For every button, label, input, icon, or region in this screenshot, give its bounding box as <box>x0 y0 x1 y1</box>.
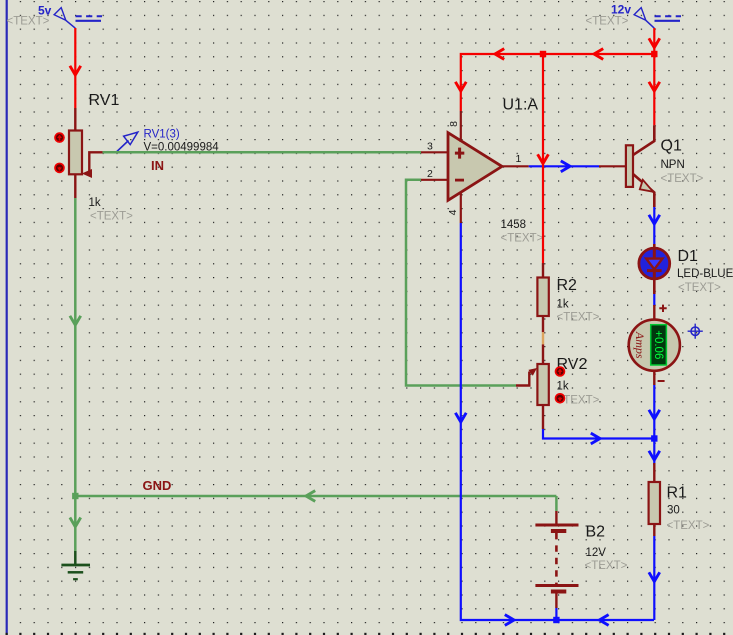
resistor R1 <box>649 439 660 537</box>
power terminal 12v <box>586 3 682 29</box>
RV2 decrement button <box>555 393 566 404</box>
net label GND <box>143 478 172 493</box>
svg-text:1k: 1k <box>557 299 569 311</box>
wire ground drop (green) <box>70 496 81 551</box>
R2 reference label <box>557 277 578 294</box>
wire battery to bottom rail (blue) <box>555 608 557 620</box>
svg-text:Amps: Amps <box>633 331 647 359</box>
Q1 reference label <box>661 138 682 155</box>
transistor Q1 <box>599 125 654 207</box>
junction GND rail / RV1 branch <box>72 493 78 499</box>
junction meter/RV2/R1 <box>651 435 657 441</box>
RV1 property text <box>90 211 133 223</box>
svg-text:LED-BLUE: LED-BLUE <box>677 268 733 280</box>
wire feedback pin2 to RV2 wiper (green) <box>406 180 516 386</box>
ammeter LCD display <box>651 325 667 365</box>
resistor R2 <box>537 263 548 332</box>
RV1 label <box>89 92 120 109</box>
D1 property text <box>678 282 721 294</box>
svg-text:R2: R2 <box>557 277 578 294</box>
R2 value 1k <box>557 299 569 311</box>
ammeter body <box>629 305 680 381</box>
R2 property text <box>557 312 600 324</box>
wire top rail (red) <box>455 49 654 111</box>
Q1 property text <box>661 173 704 185</box>
R1 reference label <box>667 485 688 502</box>
svg-text:1k: 1k <box>89 197 101 209</box>
R1 value 30 <box>667 505 680 517</box>
wire GND rail (green) <box>75 491 556 502</box>
wire rail to R2 (red) <box>538 54 549 263</box>
junction bottom rail / battery <box>553 617 559 623</box>
wire op-amp output to Q1 base (blue) <box>529 161 599 172</box>
RV1 decrement button <box>54 163 65 174</box>
svg-text:GND: GND <box>143 478 172 493</box>
B2 property text <box>585 560 628 572</box>
svg-text:<TEXT>: <TEXT> <box>586 16 629 28</box>
op-amp pin 2 stub <box>421 168 448 180</box>
B2 reference label <box>586 524 606 541</box>
D1 reference label <box>678 248 699 265</box>
svg-text:<TEXT>: <TEXT> <box>557 312 600 324</box>
net label IN <box>151 158 164 173</box>
svg-text:+0.06: +0.06 <box>652 330 664 359</box>
op-amp U1:A body <box>448 133 502 201</box>
svg-text:<TEXT>: <TEXT> <box>667 520 710 532</box>
wire IN net: RV1 wiper to op-amp pin3 (green) <box>103 151 421 154</box>
ground symbol <box>61 551 90 579</box>
wire RV2 bottom to R1 junction (blue) <box>543 429 654 444</box>
ammeter Amps label <box>633 331 647 359</box>
RV2 property text <box>557 395 600 407</box>
svg-text:IN: IN <box>151 158 164 173</box>
RV2 value 1k <box>557 381 569 393</box>
svg-text:B2: B2 <box>586 524 606 541</box>
B2 value 12V <box>586 547 607 559</box>
wire RV1 bottom to ground rail (green) <box>70 198 81 496</box>
RV2 reference label <box>557 356 588 373</box>
op-amp pin 3 stub <box>421 141 448 153</box>
svg-text:8: 8 <box>448 121 460 127</box>
svg-text:<TEXT>: <TEXT> <box>678 282 721 294</box>
power terminal 5v <box>7 4 103 29</box>
wire bottom rail right (blue) <box>556 615 654 626</box>
svg-text:30: 30 <box>667 505 680 517</box>
D1 value LED-BLUE <box>677 268 733 280</box>
op-amp pin 4 stub <box>447 192 461 223</box>
LED D1 <box>639 244 670 294</box>
svg-text:4: 4 <box>447 209 459 215</box>
op-amp pin 1 stub <box>502 153 529 166</box>
wire 5v to RV1 (red) <box>70 28 81 108</box>
svg-text:<TEXT>: <TEXT> <box>661 173 704 185</box>
RV1 increment button <box>54 132 65 143</box>
svg-text:RV1(3): RV1(3) <box>144 129 180 141</box>
battery B2 <box>535 511 578 608</box>
svg-text:1k: 1k <box>557 381 569 393</box>
wire op-amp pin4 to bottom rail (blue) <box>455 223 556 625</box>
svg-text:2: 2 <box>427 168 433 180</box>
svg-text:1458: 1458 <box>501 219 527 231</box>
potentiometer RV1 <box>69 108 103 198</box>
wire R2 to RV2 (tan) <box>542 332 544 344</box>
svg-text:12v: 12v <box>611 3 631 17</box>
Q1 value NPN <box>661 159 685 171</box>
U1 value 1458 <box>501 219 527 231</box>
U1 property text <box>501 233 544 245</box>
wire R1 to bottom rail (blue) <box>649 536 660 620</box>
svg-text:NPN: NPN <box>661 159 685 171</box>
svg-text:RV1: RV1 <box>89 92 120 109</box>
RV1 value 1k <box>89 197 101 209</box>
wire Q1 emitter to D1 (blue) <box>649 207 660 247</box>
svg-text:U1:A: U1:A <box>503 97 539 114</box>
voltage probe RV1(3) <box>116 129 219 154</box>
wire 12v terminal to Q1 collector (red) <box>649 28 660 125</box>
wire GND rail to battery (green) <box>555 496 558 511</box>
svg-text:R1: R1 <box>667 485 688 502</box>
svg-text:12V: 12V <box>586 547 607 559</box>
RV2 increment button <box>555 366 566 377</box>
origin marker crosshair <box>688 324 703 339</box>
wire ammeter to R1 junction (blue) <box>649 372 660 439</box>
svg-text:<TEXT>: <TEXT> <box>7 16 50 28</box>
junction top rail / 12v terminal <box>651 51 657 57</box>
U1:A reference label <box>503 97 539 114</box>
svg-text:1: 1 <box>516 153 522 165</box>
svg-text:D1: D1 <box>678 248 699 265</box>
potentiometer RV2 <box>516 344 549 429</box>
junction top rail / R2 branch <box>540 51 546 57</box>
op-amp pin 8 stub <box>448 111 461 142</box>
svg-text:<TEXT>: <TEXT> <box>90 211 133 223</box>
svg-text:3: 3 <box>427 141 433 153</box>
svg-text:Q1: Q1 <box>661 138 682 155</box>
svg-text:<TEXT>: <TEXT> <box>585 560 628 572</box>
wire D1 to ammeter (blue) <box>653 294 655 306</box>
R1 property text <box>667 520 710 532</box>
svg-text:<TEXT>: <TEXT> <box>501 233 544 245</box>
